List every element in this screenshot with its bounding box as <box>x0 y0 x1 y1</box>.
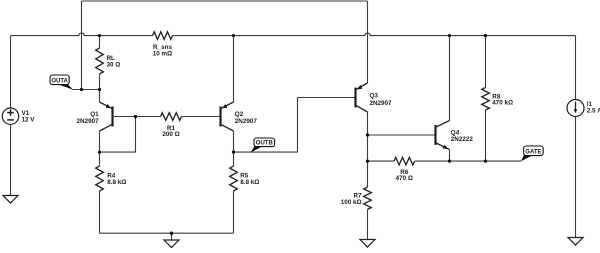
svg-text:100 kΩ: 100 kΩ <box>341 199 362 206</box>
svg-text:10 mΩ: 10 mΩ <box>153 50 172 57</box>
svg-text:470 kΩ: 470 kΩ <box>492 100 513 107</box>
svg-text:Q3: Q3 <box>370 93 379 100</box>
svg-text:30 Ω: 30 Ω <box>107 61 121 68</box>
svg-text:2.5 A: 2.5 A <box>587 107 600 114</box>
svg-text:2N2907: 2N2907 <box>235 118 258 125</box>
svg-text:200 Ω: 200 Ω <box>162 131 179 138</box>
svg-text:2N2907: 2N2907 <box>77 118 100 125</box>
svg-text:GATE: GATE <box>525 149 541 155</box>
svg-text:2N2222: 2N2222 <box>451 136 474 143</box>
svg-text:2N2907: 2N2907 <box>370 100 393 107</box>
svg-text:OUTA: OUTA <box>51 78 68 84</box>
svg-text:8.8 kΩ: 8.8 kΩ <box>107 179 126 186</box>
svg-text:8.8 kΩ: 8.8 kΩ <box>240 179 259 186</box>
svg-text:470 Ω: 470 Ω <box>396 175 413 182</box>
svg-text:OUTB: OUTB <box>256 140 274 146</box>
svg-text:12 V: 12 V <box>22 117 36 124</box>
